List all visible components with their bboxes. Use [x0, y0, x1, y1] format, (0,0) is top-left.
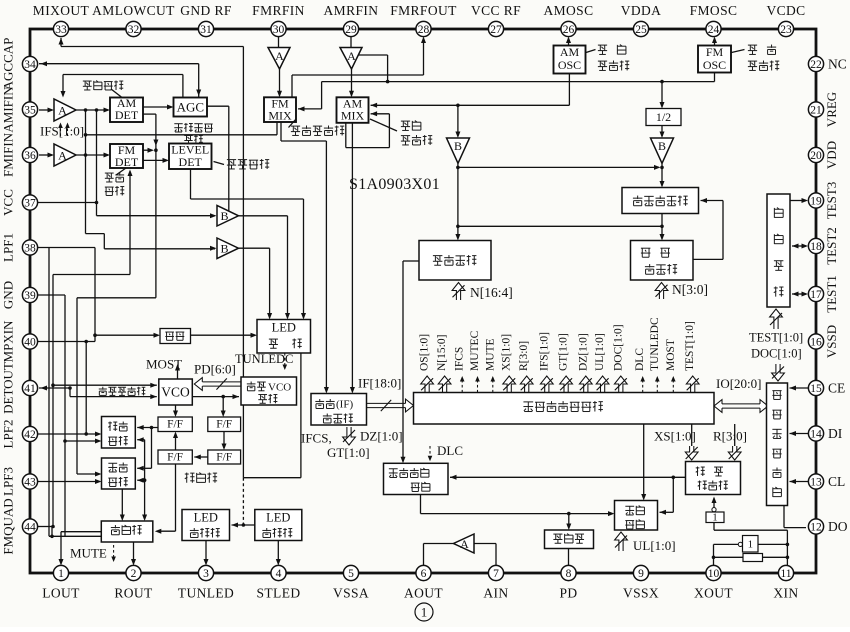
svg-text:20: 20 [810, 150, 822, 162]
svg-text:AIN: AIN [483, 586, 508, 601]
svg-text:AM: AM [560, 45, 580, 59]
svg-text:AGCCAP: AGCCAP [1, 38, 16, 91]
svg-text:GT[1:0]: GT[1:0] [327, 445, 370, 460]
svg-text:38: 38 [24, 242, 36, 254]
svg-text:10: 10 [708, 568, 720, 580]
svg-text:MUTEC: MUTEC [469, 330, 481, 371]
svg-text:42: 42 [24, 429, 36, 441]
svg-text:TUNLEDC: TUNLEDC [649, 317, 661, 371]
svg-text:MUTE: MUTE [70, 546, 107, 561]
svg-text:LED: LED [266, 511, 290, 525]
svg-text:TEST[1:0]: TEST[1:0] [749, 331, 803, 345]
svg-text:DO: DO [828, 519, 848, 534]
svg-text:AMRFIN: AMRFIN [324, 3, 379, 18]
svg-text:36: 36 [24, 150, 36, 162]
svg-text:21: 21 [810, 104, 822, 116]
svg-text:DET: DET [179, 155, 203, 169]
svg-text:R[3:0]: R[3:0] [713, 429, 747, 444]
svg-text:OSC: OSC [558, 58, 581, 72]
svg-text:B: B [454, 139, 462, 153]
svg-text:DZ[1:0]: DZ[1:0] [360, 429, 403, 444]
svg-text:VCO: VCO [161, 385, 190, 400]
svg-text:4: 4 [276, 568, 282, 580]
svg-text:30: 30 [273, 24, 285, 36]
svg-text:FMRFIN: FMRFIN [252, 3, 305, 18]
svg-text:N[15:0]: N[15:0] [436, 335, 448, 371]
svg-text:TEST[1:0]: TEST[1:0] [684, 321, 696, 371]
svg-text:18: 18 [810, 241, 822, 253]
svg-text:7: 7 [493, 568, 499, 580]
svg-text:40: 40 [24, 336, 36, 348]
svg-text:5: 5 [348, 568, 354, 580]
svg-text:A: A [347, 49, 356, 63]
svg-text:MPXIN: MPXIN [1, 320, 16, 363]
svg-text:FMQUAD: FMQUAD [1, 498, 16, 554]
svg-text:41: 41 [24, 383, 36, 395]
svg-text:TEST2: TEST2 [824, 227, 839, 265]
svg-text:1: 1 [58, 568, 64, 580]
svg-text:LED: LED [194, 511, 218, 525]
svg-text:IFS[1:0]: IFS[1:0] [538, 332, 550, 371]
svg-text:B: B [220, 209, 228, 223]
svg-text:F/F: F/F [216, 419, 232, 431]
svg-text:XS[1:0]: XS[1:0] [501, 334, 513, 371]
svg-text:DET: DET [115, 108, 139, 122]
svg-text:FMIFIN: FMIFIN [1, 132, 16, 177]
svg-text:32: 32 [128, 24, 140, 36]
svg-text:A: A [460, 537, 469, 551]
svg-text:VSSA: VSSA [333, 586, 369, 601]
svg-text:IFS[1:0]: IFS[1:0] [40, 124, 84, 139]
svg-text:UL[1:0]: UL[1:0] [594, 333, 606, 371]
svg-text:N[16:4]: N[16:4] [470, 285, 513, 300]
svg-text:13: 13 [810, 476, 822, 488]
svg-text:VSSD: VSSD [824, 325, 839, 358]
svg-text:28: 28 [418, 24, 430, 36]
svg-text:S1A0903X01: S1A0903X01 [349, 176, 440, 193]
svg-text:MUTE: MUTE [484, 338, 496, 371]
svg-text:R[3:0]: R[3:0] [518, 341, 530, 371]
svg-text:(IF): (IF) [336, 399, 353, 411]
svg-text:ROUT: ROUT [114, 586, 153, 601]
svg-text:35: 35 [24, 104, 36, 116]
svg-text:44: 44 [24, 521, 36, 533]
svg-text:LOUT: LOUT [42, 586, 80, 601]
svg-text:A: A [275, 49, 284, 63]
svg-text:XOUT: XOUT [694, 586, 733, 601]
svg-text:DOC[1:0]: DOC[1:0] [612, 324, 624, 371]
svg-text:31: 31 [200, 24, 212, 36]
svg-text:GT[1:0]: GT[1:0] [558, 333, 570, 371]
svg-text:F/F: F/F [167, 452, 183, 464]
svg-text:A: A [58, 149, 67, 163]
svg-text:IO[20:0]: IO[20:0] [716, 376, 762, 391]
svg-text:8: 8 [566, 568, 572, 580]
svg-text:33: 33 [55, 24, 67, 36]
svg-text:PD: PD [559, 586, 577, 601]
svg-text:24: 24 [708, 24, 720, 36]
svg-text:22: 22 [810, 59, 822, 71]
svg-text:PD[6:0]: PD[6:0] [194, 362, 236, 377]
svg-text:IFCS,: IFCS, [301, 431, 332, 446]
svg-text:14: 14 [810, 428, 822, 440]
svg-text:IFCS: IFCS [454, 347, 466, 371]
svg-text:GND RF: GND RF [180, 3, 232, 18]
svg-text:B: B [658, 139, 666, 153]
svg-text:XS[1:0]: XS[1:0] [654, 429, 696, 444]
svg-text:AMLOWCUT: AMLOWCUT [92, 3, 175, 18]
svg-text:FMOSC: FMOSC [690, 3, 738, 18]
svg-text:TEST3: TEST3 [824, 182, 839, 220]
svg-text:1: 1 [421, 605, 428, 620]
svg-text:LPF3: LPF3 [1, 467, 16, 496]
svg-text:17: 17 [810, 289, 822, 301]
svg-text:UL[1:0]: UL[1:0] [633, 538, 676, 553]
svg-text:OSC: OSC [703, 58, 726, 72]
svg-text:3: 3 [203, 568, 209, 580]
svg-text:LPF2: LPF2 [1, 420, 16, 449]
svg-text:DZ[1:0]: DZ[1:0] [577, 333, 589, 371]
svg-text:VDDA: VDDA [621, 3, 662, 18]
svg-text:VCC RF: VCC RF [471, 3, 521, 18]
svg-text:STLED: STLED [257, 586, 301, 601]
svg-text:DOC[1:0]: DOC[1:0] [751, 347, 802, 361]
svg-text:2: 2 [131, 568, 137, 580]
svg-text:MOST: MOST [146, 357, 182, 372]
svg-text:11: 11 [780, 568, 791, 580]
svg-text:VREG: VREG [824, 92, 839, 127]
svg-text:FMRFOUT: FMRFOUT [390, 3, 457, 18]
svg-text:IF[18:0]: IF[18:0] [358, 376, 401, 391]
svg-text:AMIFIN: AMIFIN [1, 86, 16, 133]
svg-text:MIXOUT: MIXOUT [33, 3, 90, 18]
svg-text:VCC: VCC [1, 189, 16, 216]
svg-text:29: 29 [345, 24, 357, 36]
svg-text:34: 34 [24, 59, 36, 71]
svg-text:DLC: DLC [634, 348, 646, 371]
svg-text:25: 25 [635, 24, 647, 36]
svg-text:15: 15 [810, 383, 822, 395]
svg-text:VDD: VDD [824, 141, 839, 169]
svg-text:26: 26 [563, 24, 575, 36]
svg-text:16: 16 [810, 336, 822, 348]
svg-text:39: 39 [24, 290, 36, 302]
svg-text:DI: DI [828, 426, 843, 441]
svg-text:F/F: F/F [167, 419, 183, 431]
svg-text:GND: GND [1, 281, 16, 309]
svg-text:MIX: MIX [268, 109, 292, 123]
svg-text:23: 23 [780, 24, 792, 36]
svg-text:LED: LED [272, 321, 296, 335]
svg-text:AGC: AGC [177, 100, 204, 115]
svg-text:9: 9 [638, 568, 644, 580]
svg-text:N[3:0]: N[3:0] [672, 282, 708, 297]
svg-text:A: A [58, 104, 67, 118]
svg-text:1: 1 [748, 539, 754, 551]
svg-text:LPF1: LPF1 [1, 233, 16, 262]
svg-text:6: 6 [421, 568, 427, 580]
svg-text:CL: CL [828, 474, 845, 489]
svg-text:43: 43 [24, 476, 36, 488]
svg-text:1: 1 [712, 513, 717, 524]
svg-text:19: 19 [810, 195, 822, 207]
svg-text:TUNLED: TUNLED [178, 586, 234, 601]
svg-text:1/2: 1/2 [656, 110, 671, 124]
svg-text:27: 27 [490, 24, 502, 36]
svg-text:12: 12 [810, 521, 822, 533]
svg-text:AOUT: AOUT [404, 586, 443, 601]
svg-text:MIX: MIX [341, 109, 365, 123]
svg-text:NC: NC [828, 57, 847, 72]
svg-text:VCO: VCO [268, 382, 291, 394]
svg-text:XIN: XIN [773, 586, 798, 601]
svg-text:MOST: MOST [665, 339, 677, 371]
svg-text:VCDC: VCDC [766, 3, 805, 18]
svg-text:F/F: F/F [216, 452, 232, 464]
svg-text:FM: FM [706, 45, 724, 59]
svg-text:37: 37 [24, 197, 36, 209]
svg-text:VSSX: VSSX [623, 586, 659, 601]
svg-text:TEST1: TEST1 [824, 275, 839, 313]
svg-text:DETOUT: DETOUT [1, 362, 16, 414]
svg-text:AMOSC: AMOSC [543, 3, 593, 18]
svg-text:DLC: DLC [437, 443, 463, 458]
svg-text:TUNLEDC: TUNLEDC [235, 352, 293, 366]
svg-text:DET: DET [115, 155, 139, 169]
svg-text:B: B [220, 242, 228, 256]
svg-text:CE: CE [828, 381, 845, 396]
svg-text:OS[1:0]: OS[1:0] [419, 334, 431, 371]
